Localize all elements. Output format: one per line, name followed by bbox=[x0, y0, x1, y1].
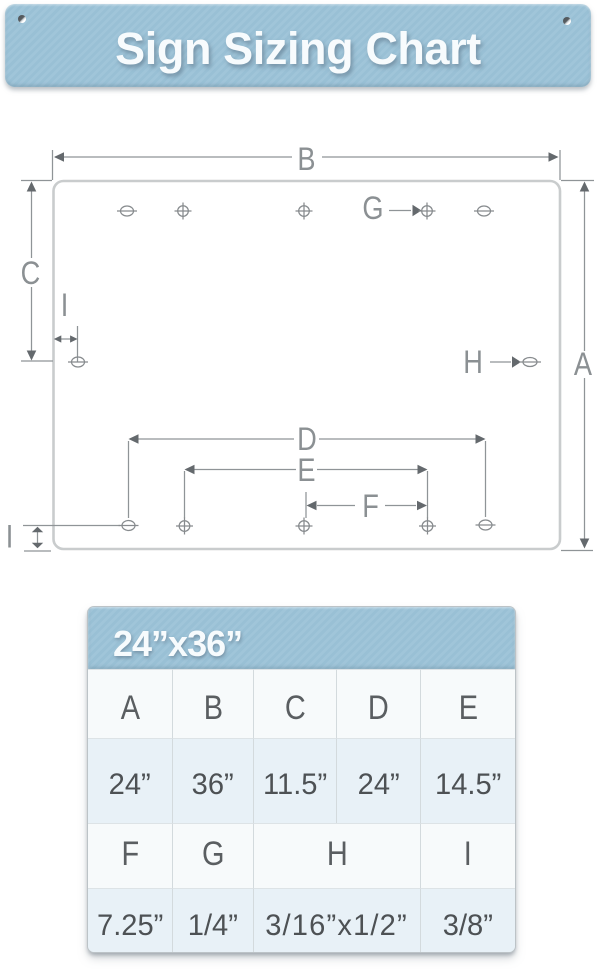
arrowhead F right bbox=[417, 501, 427, 511]
dimension D extension line right bbox=[485, 441, 487, 517]
hole middle-right slot H bbox=[519, 358, 541, 367]
arrowhead I-bottom down bbox=[32, 543, 43, 548]
arrowhead F left bbox=[307, 501, 317, 511]
hole bottom round 2 bbox=[176, 518, 193, 535]
dimension E extension line right bbox=[427, 471, 429, 518]
size table bbox=[88, 607, 515, 952]
dimension A extension tick bottom bbox=[561, 550, 593, 552]
dimension E extension line left bbox=[184, 471, 186, 518]
arrowhead A down bbox=[580, 539, 590, 549]
arrowhead E right bbox=[418, 465, 428, 475]
dimension A line bbox=[584, 183, 586, 547]
svg-text:H: H bbox=[463, 345, 483, 381]
dimension C extension tick top bbox=[21, 180, 52, 182]
leader line H bbox=[490, 361, 511, 363]
hole top round G bbox=[419, 203, 436, 220]
arrowhead I-left pointing right bbox=[70, 335, 78, 342]
dimension I-bottom extension tick bottom bbox=[24, 550, 51, 552]
arrowhead B left bbox=[54, 152, 64, 162]
hole middle-left slot bbox=[68, 357, 88, 367]
hole top round middle bbox=[296, 203, 313, 220]
dimension I-bottom line bbox=[37, 531, 39, 544]
arrowhead B right bbox=[549, 152, 559, 162]
svg-text:A: A bbox=[574, 347, 592, 383]
dimension B line bbox=[55, 156, 557, 158]
svg-text:F: F bbox=[362, 489, 379, 525]
dimension B extension line right bbox=[559, 150, 561, 180]
hole bottom round F bbox=[419, 518, 436, 535]
dimension C line bbox=[31, 183, 33, 359]
dimension F extension tick left bbox=[305, 492, 307, 518]
hole top slot left bbox=[117, 206, 137, 216]
dimension I-left line bbox=[61, 338, 71, 340]
sign panel outline bbox=[54, 181, 561, 549]
arrowhead A up bbox=[580, 182, 590, 192]
arrowhead D right bbox=[476, 434, 486, 444]
hole top round 2 bbox=[175, 203, 192, 220]
screw top-left bbox=[18, 15, 26, 23]
svg-text:I: I bbox=[6, 519, 14, 555]
dimension E line bbox=[186, 469, 426, 471]
dimension D line bbox=[130, 438, 484, 440]
svg-text:C: C bbox=[21, 256, 41, 292]
hole bottom slot right bbox=[476, 520, 496, 530]
screw top-right bbox=[563, 17, 571, 25]
svg-text:G: G bbox=[362, 191, 383, 227]
arrowhead H bbox=[512, 356, 521, 367]
banner: Sign Sizing Chart header bbox=[5, 4, 591, 87]
svg-text:I: I bbox=[61, 288, 69, 324]
arrowhead I-bottom up bbox=[32, 527, 43, 532]
arrowhead D left bbox=[129, 434, 139, 444]
arrowhead C up bbox=[27, 182, 37, 192]
hole top slot right bbox=[474, 206, 494, 216]
arrowhead C down bbox=[27, 351, 37, 361]
leader line G bbox=[389, 210, 411, 212]
dimension I-bottom extension line top bbox=[23, 525, 120, 527]
dimension I-left extension line bbox=[77, 326, 79, 362]
dimension D extension line left bbox=[128, 441, 130, 518]
svg-text:E: E bbox=[297, 453, 315, 489]
svg-text:B: B bbox=[297, 142, 315, 178]
arrowhead G bbox=[413, 205, 422, 216]
hole bottom round middle bbox=[296, 518, 313, 535]
hole bottom slot left bbox=[119, 521, 139, 531]
dimension A extension tick top bbox=[561, 180, 594, 182]
arrowhead I-left pointing left bbox=[54, 335, 62, 342]
arrowhead E left bbox=[185, 465, 195, 475]
dimension B extension line left bbox=[52, 150, 54, 180]
dimension C extension tick bottom bbox=[21, 360, 53, 362]
dimension F line bbox=[317, 505, 416, 507]
table header 24"x36" bbox=[88, 607, 515, 669]
